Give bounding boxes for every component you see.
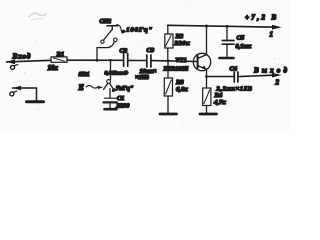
transistor VT1 [193, 53, 210, 70]
wire C2 to C3 [128, 59, 146, 61]
svg-text:R3: R3 [175, 79, 184, 86]
svg-text:R1: R1 [56, 51, 65, 58]
wire emitter down [206, 69, 208, 76]
junction C5-rail [226, 25, 229, 28]
ground (R3) [160, 113, 177, 116]
svg-text:6,8к: 6,8к [176, 86, 188, 93]
wire node C to R3 [167, 61, 169, 78]
svg-text:2: 2 [275, 79, 280, 87]
node C junction (divider) [167, 60, 170, 63]
svg-text:КТ3102Е: КТ3102Е [163, 67, 189, 73]
svg-text:Вход: Вход [12, 53, 32, 61]
capacitor C1 (polarized) [105, 97, 117, 99]
pin label б (input) [11, 65, 15, 69]
svg-text:VТ1: VТ1 [176, 57, 187, 64]
svg-text:R2: R2 [175, 33, 184, 40]
node B junction [109, 59, 112, 62]
svg-text:SВ1: SВ1 [79, 71, 90, 78]
switch SB1 [107, 80, 111, 84]
capacitor C5 [222, 40, 234, 42]
resistor R3 [164, 78, 172, 96]
output wire and arrow (Выход) [238, 75, 272, 76]
pin label б (shield) [10, 92, 14, 96]
node E junction [205, 75, 208, 78]
wire collector to rail [206, 26, 208, 55]
svg-text:18к: 18к [48, 65, 59, 72]
svg-text:0,1мк: 0,1мк [236, 43, 252, 50]
ground (R4) [200, 113, 217, 116]
wire R2 to node C [167, 48, 169, 61]
capacitor C3 [146, 55, 148, 67]
wire C5 to ground [226, 44, 228, 56]
svg-text:„100Гц": „100Гц" [122, 27, 153, 34]
svg-text:2,2мк×15В: 2,2мк×15В [216, 86, 253, 93]
power rail +7,2 В [168, 25, 273, 27]
svg-text:С4: С4 [230, 66, 237, 73]
faint bleed-through smudge [29, 13, 46, 17]
wire node B down to switch SB1 [110, 60, 112, 79]
svg-text:СБ2: СБ2 [100, 18, 112, 25]
wire node A up to switch SB2 [97, 42, 114, 60]
svg-text:2200: 2200 [116, 103, 131, 110]
svg-text:С2: С2 [120, 48, 128, 55]
wire R3 to ground [167, 96, 169, 113]
ground (C1) [105, 108, 117, 111]
svg-text:„7кГц": „7кГц" [113, 85, 134, 92]
switch SB2 [101, 40, 104, 43]
ground (C5) [220, 57, 234, 60]
wire R4 to ground [206, 106, 208, 113]
svg-text:Е: Е [78, 83, 84, 92]
junction collector-rail [205, 25, 208, 28]
svg-text:С5: С5 [237, 35, 245, 42]
svg-text:4,7к: 4,7к [213, 99, 226, 106]
resistor R4 [203, 88, 211, 106]
ground (input shield) [27, 100, 44, 103]
svg-text:1: 1 [270, 31, 274, 39]
svg-text:С1: С1 [117, 95, 124, 102]
svg-text:×15В: ×15В [135, 74, 149, 81]
capacitor C4 [233, 72, 235, 82]
svg-text:С3: С3 [147, 47, 155, 54]
wire emitter node to C4 [207, 76, 234, 78]
wire emitter node to R4 [206, 77, 208, 89]
capacitor C2 [123, 54, 125, 67]
paper speckle noise [94, 21, 95, 22]
svg-text:+7,2 В: +7,2 В [245, 14, 279, 22]
svg-text:0,012мкФ: 0,012мкФ [105, 70, 129, 76]
svg-text:220к: 220к [174, 40, 191, 47]
resistor R1 [51, 57, 67, 62]
shield terminal arrow [13, 88, 37, 101]
wire C3 to base [151, 60, 197, 63]
resistor R2 [165, 34, 173, 48]
node A junction [96, 59, 99, 62]
wire rail to C5 [226, 26, 228, 40]
wire R1 to C2 [67, 59, 123, 61]
svg-text:Выход: Выход [253, 67, 290, 75]
input terminal arrow (Вход) [7, 60, 52, 62]
wire rail to R2 [167, 25, 169, 34]
